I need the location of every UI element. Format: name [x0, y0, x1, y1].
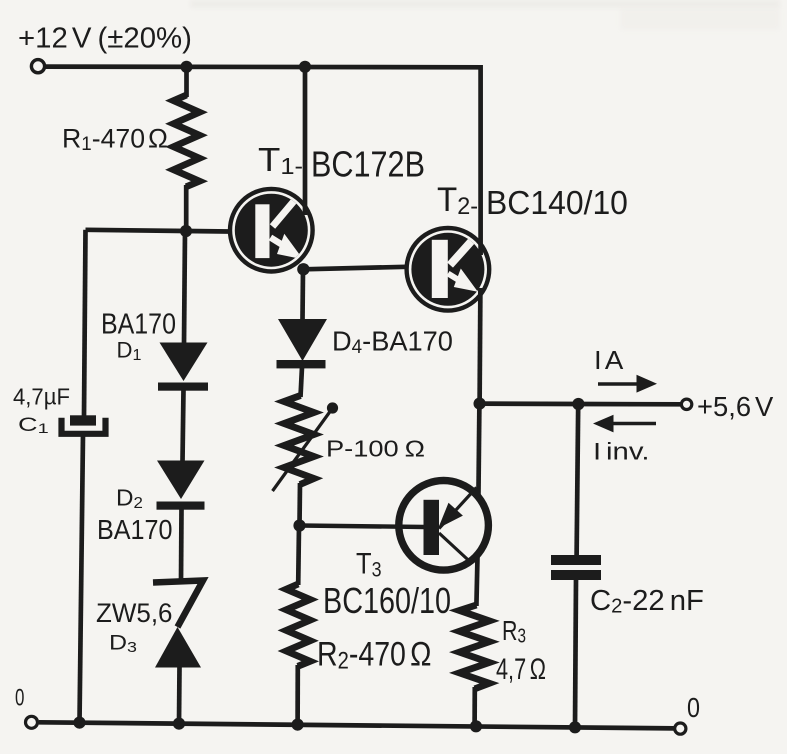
svg-text:BA170: BA170 — [97, 514, 173, 546]
wire C1 bottom lead to ground rail — [80, 434, 84, 723]
svg-text:R1-470Ω: R1-470Ω — [62, 123, 168, 155]
terminal +5,6V output — [681, 399, 691, 409]
terminal ground right — [675, 723, 686, 734]
svg-text:BA170: BA170 — [101, 308, 176, 340]
svg-text:4,7Ω: 4,7Ω — [496, 651, 546, 685]
terminal +12V input — [31, 60, 44, 73]
wire left column down to C1 — [84, 230, 86, 416]
svg-text:+5,6V: +5,6V — [697, 391, 774, 422]
svg-text:D4-BA170: D4-BA170 — [332, 325, 453, 358]
junction dot T1 emitter node — [297, 263, 309, 275]
junction dot output rail / C2 — [572, 398, 584, 410]
wire R3 bottom to ground rail — [472, 687, 477, 726]
svg-text:BC172B: BC172B — [311, 145, 425, 185]
junction dot ground / C1 — [73, 717, 85, 729]
junction dot ground / R2 — [292, 719, 304, 731]
resistor R3 — [459, 605, 489, 689]
svg-text:4,7µF: 4,7µF — [13, 384, 70, 409]
potentiometer P zigzag — [284, 396, 314, 485]
wire output rail to +5,6V terminal — [480, 401, 682, 406]
wire T1 collector lead — [303, 67, 308, 215]
wire R1 bottom lead to base node — [184, 185, 189, 231]
transistor T1 BC172B — [230, 189, 313, 272]
wire node B to T3 base — [300, 526, 425, 528]
junction dot top rail / T1 collector — [299, 61, 311, 73]
resistor R2 — [286, 584, 310, 666]
wire P bottom to node B — [297, 483, 302, 526]
svg-text:IA: IA — [594, 346, 623, 375]
svg-text:P-100Ω: P-100Ω — [326, 436, 425, 462]
wire R2 bottom to ground rail — [295, 665, 300, 725]
svg-text:BC160/10: BC160/10 — [323, 580, 451, 621]
junction dot node A R1/D1/base — [180, 225, 192, 237]
wire D1 top lead — [184, 231, 185, 344]
svg-text:BC140/10: BC140/10 — [486, 185, 628, 222]
wire ground rail — [39, 722, 675, 728]
wire output node down to T3 emitter — [478, 404, 479, 500]
wire T1 emitter down to D4 — [300, 269, 305, 320]
potentiometer P wiper arm — [273, 410, 332, 492]
junction dot top rail / R1 — [180, 61, 192, 73]
wire C2 bottom lead to ground rail — [575, 579, 576, 727]
wire node A horizontal: left corner to T1 base — [86, 230, 229, 232]
wire D1 to D2 — [183, 389, 184, 462]
wire T3 collector down to R3 — [476, 552, 477, 606]
junction dot output node T2/T3 — [474, 398, 486, 410]
diode D4 BA170 — [277, 319, 328, 368]
resistor R1 — [174, 95, 200, 187]
svg-text:C2-22nF: C2-22nF — [590, 585, 704, 617]
wire T1 emitter to T2 base — [303, 267, 406, 270]
diode D2 BA170 — [157, 461, 205, 510]
wire R1 top lead — [184, 67, 189, 97]
diode D1 BA170 — [158, 343, 208, 391]
transistor T2 BC140/10 — [407, 228, 490, 311]
svg-text:0: 0 — [687, 693, 700, 723]
wire T2 emitter down to output node — [477, 288, 482, 404]
wire top rail from +12V terminal to right corner and down to T2 collector — [45, 67, 480, 255]
svg-text:+12V(±20%): +12V(±20%) — [18, 23, 192, 55]
zener diode D3 ZW5,6 — [153, 581, 203, 668]
svg-text:ZW5,6: ZW5,6 — [96, 598, 172, 629]
capacitor C1 4,7uF electrolytic — [62, 415, 106, 434]
junction dot node B P/R2/T3 base — [293, 519, 305, 531]
wire C2 top lead — [577, 404, 579, 556]
terminal ground left — [26, 716, 38, 728]
junction dot ground / R3 — [470, 720, 482, 732]
transistor T3 BC160/10 — [399, 481, 489, 571]
junction dot ground / D3 — [173, 718, 185, 730]
arrow IA output current — [598, 375, 657, 393]
arrow I inv reverse current — [593, 415, 656, 433]
wire D3 bottom to ground rail — [177, 666, 182, 724]
capacitor C2 22nF — [551, 555, 601, 580]
svg-text:0: 0 — [15, 685, 24, 712]
wire D2 to D3 zener — [179, 508, 184, 581]
wire node B to R2 — [296, 526, 301, 586]
potentiometer P wiper terminal dot — [327, 402, 338, 413]
scan noise top edge — [190, 0, 780, 8]
junction dot ground / C2 — [569, 721, 581, 733]
wire D4 to potentiometer P — [301, 367, 303, 397]
svg-text:R2-470Ω: R2-470Ω — [317, 635, 431, 674]
